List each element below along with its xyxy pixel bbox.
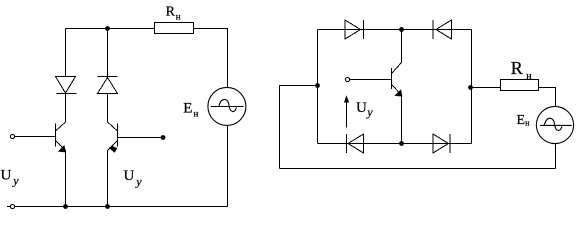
transistor VT1 base bar — [55, 124, 57, 147]
annotation arrow Uy head — [344, 95, 349, 102]
transistor VT2 emitter lead — [108, 141, 118, 151]
ac source E2 sine wave — [544, 118, 562, 130]
svg-text:y: y — [366, 105, 373, 119]
wire: outer bottom return rail — [280, 168, 556, 170]
svg-text:y: y — [12, 174, 19, 188]
wire: top rail right segment and corner down to source — [194, 29, 228, 89]
svg-text:н: н — [526, 71, 532, 82]
svg-text:н: н — [194, 109, 199, 119]
terminal: open circle VT3 base — [345, 77, 349, 81]
wire: VT3 emitter down to bottom junction — [401, 95, 403, 144]
transistor VT2 base wire — [118, 137, 162, 139]
diode D1 top-left triangle — [345, 20, 361, 39]
diode VD2 cathode bar — [98, 76, 118, 78]
wire: right mid junction to resistor R2 — [471, 87, 501, 89]
transistor VT3 collector lead — [392, 63, 402, 74]
wire: source bottom down to bottom rail corner — [227, 125, 229, 207]
diode VD1 cathode bar — [57, 93, 77, 95]
wire: bridge top rail — [318, 29, 472, 31]
wire: top rail — [66, 28, 155, 30]
ac source E1 axis line — [211, 106, 244, 108]
node: bridge left mid junction dot — [315, 83, 320, 88]
wire: VT3 collector up to top junction — [401, 30, 403, 63]
wire: top junction down to diode VD2 — [107, 29, 109, 78]
node: left circuit bottom junction dot A — [63, 204, 68, 209]
diode VD1 triangle — [56, 77, 76, 94]
node: left circuit bottom junction dot B — [105, 204, 110, 209]
svg-text:E: E — [517, 113, 526, 128]
diode D2 triangle — [436, 20, 452, 39]
wire: resistor R2 to corner and down to source E2 top — [539, 88, 556, 107]
wire: left mid junction out to the left and down — [280, 86, 318, 169]
transistor VT2 emitter arrow — [109, 146, 117, 153]
svg-text:R: R — [511, 58, 523, 78]
diode D1 cathode bar — [363, 20, 365, 39]
diode D2 top-right cathode bar — [432, 20, 434, 39]
terminal: open circle VT1 base — [10, 134, 14, 138]
svg-text:y: y — [135, 174, 142, 188]
transistor VT3 base bar — [391, 68, 393, 89]
resistor R1 body — [155, 23, 194, 34]
transistor VT3 emitter arrow — [394, 89, 402, 96]
node: bridge top junction dot — [399, 27, 404, 32]
wire: outer right up to source E2 bottom — [555, 144, 557, 169]
annotation arrow Uy line — [346, 101, 348, 128]
transistor VT1 base wire — [15, 136, 56, 138]
terminal stub bottom left — [7, 206, 11, 208]
wire: VT2 emitter down to bottom rail — [107, 150, 109, 207]
resistor R2 body — [501, 80, 539, 91]
diode VD2 triangle — [98, 78, 118, 94]
svg-text:н: н — [176, 12, 181, 22]
ac source E2 axis line — [540, 124, 572, 126]
svg-text:R: R — [166, 4, 176, 19]
wire: left branch down to diode VD1 — [65, 29, 67, 77]
wire: bridge left side — [317, 30, 319, 144]
diode D3 triangle — [348, 134, 364, 153]
wire: bridge bottom rail — [318, 143, 472, 145]
wire: bridge right side — [471, 30, 473, 144]
terminal: filled dot VT2 base — [161, 135, 166, 140]
transistor VT1 emitter lead — [56, 141, 66, 151]
transistor VT1 collector lead — [56, 122, 66, 131]
ac source E2 circle — [536, 106, 573, 143]
diode D4 cathode bar — [449, 134, 451, 153]
terminal: open circle bottom left — [10, 204, 14, 208]
transistor VT1 emitter arrow — [58, 145, 66, 152]
wire: bottom rail — [15, 206, 228, 208]
transistor VT2 collector lead — [108, 122, 118, 131]
transistor VT3 base wire — [350, 79, 392, 81]
ac source E1 sine wave — [219, 99, 237, 111]
node: bridge right mid junction dot — [468, 85, 473, 90]
transistor VT2 base bar — [117, 124, 119, 147]
svg-text:н: н — [525, 119, 530, 128]
svg-text:U: U — [356, 100, 367, 116]
diode D4 bottom-right triangle — [433, 134, 449, 153]
ac source E1 circle — [208, 87, 246, 125]
wire: VD1 to VT1 collector junction — [65, 94, 67, 123]
svg-text:E: E — [183, 100, 192, 116]
transistor VT3 emitter lead — [392, 85, 402, 96]
svg-text:U: U — [1, 167, 12, 183]
svg-text:U: U — [124, 168, 135, 184]
wire: VD2 to VT2 collector junction — [107, 94, 109, 123]
node: left circuit top junction dot — [105, 26, 110, 31]
diode D3 bottom-left cathode bar — [346, 134, 348, 153]
node: bridge bottom junction dot — [399, 141, 404, 146]
wire: VT1 emitter down to bottom rail — [65, 150, 67, 207]
